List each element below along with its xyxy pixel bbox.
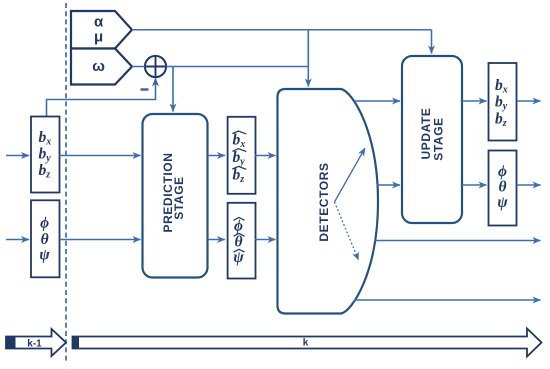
svg-text:ψ: ψ — [497, 194, 508, 211]
svg-text:ω: ω — [92, 58, 105, 75]
svg-text:k: k — [303, 338, 309, 349]
svg-text:θ: θ — [234, 233, 242, 250]
svg-text:ψ: ψ — [39, 246, 50, 263]
svg-text:STAGE: STAGE — [432, 117, 446, 160]
svg-text:ϕ: ϕ — [40, 215, 49, 232]
svg-text:μ: μ — [94, 29, 103, 46]
svg-text:DETECTORS: DETECTORS — [317, 162, 331, 241]
svg-text:θ: θ — [41, 231, 49, 248]
svg-text:k-1: k-1 — [27, 339, 42, 350]
svg-text:θ: θ — [498, 179, 506, 196]
svg-text:ϕ: ϕ — [498, 163, 507, 180]
svg-text:STAGE: STAGE — [172, 176, 186, 219]
